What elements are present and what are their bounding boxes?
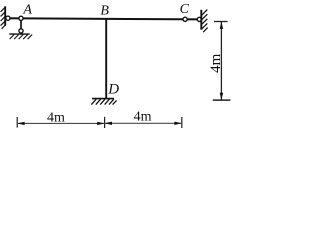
hinge pin on left wall	[6, 16, 10, 20]
arrow left end of B-C dimension	[105, 122, 112, 125]
ground line under D	[92, 98, 114, 100]
down arrow of vertical dimension	[220, 93, 223, 100]
svg-text:B: B	[100, 3, 109, 18]
left dimension extension tick	[16, 117, 18, 128]
hinge pin on right wall	[197, 17, 201, 21]
right wall	[200, 10, 202, 30]
hinge at bottom of A link	[19, 29, 23, 33]
top tick of vertical dimension	[214, 21, 228, 23]
svg-text:C: C	[180, 2, 190, 17]
middle dimension extension tick	[104, 117, 106, 128]
dimension line A-B	[17, 122, 104, 124]
vertical link below A	[20, 18, 22, 31]
hinge at C	[183, 17, 187, 21]
left wall	[4, 6, 6, 25]
arrow right end of A-B dimension	[97, 122, 104, 125]
ground hatching under A link	[10, 35, 33, 40]
arrow right end of B-C dimension	[174, 122, 181, 125]
dimension line B-C	[105, 122, 182, 124]
hinge at A	[19, 16, 23, 20]
svg-text:4m: 4m	[47, 111, 65, 126]
svg-text:D: D	[107, 82, 119, 98]
svg-text:4m: 4m	[134, 109, 152, 124]
arrow left end of A-B dimension	[17, 122, 24, 125]
right dimension extension tick	[181, 117, 183, 128]
beam A-B-C axis (with link bars to walls)	[7, 18, 201, 19]
svg-text:4m: 4m	[208, 53, 224, 73]
svg-text:A: A	[22, 2, 32, 17]
ground hatching under D	[91, 99, 116, 104]
up arrow of vertical dimension	[220, 22, 223, 29]
right wall hatching	[202, 10, 208, 33]
left wall hatching	[1, 7, 6, 29]
vertical dimension line (right)	[220, 22, 222, 100]
bottom tick of vertical dimension	[213, 99, 231, 101]
column B-D	[105, 19, 107, 99]
ground line under A link	[9, 33, 29, 35]
